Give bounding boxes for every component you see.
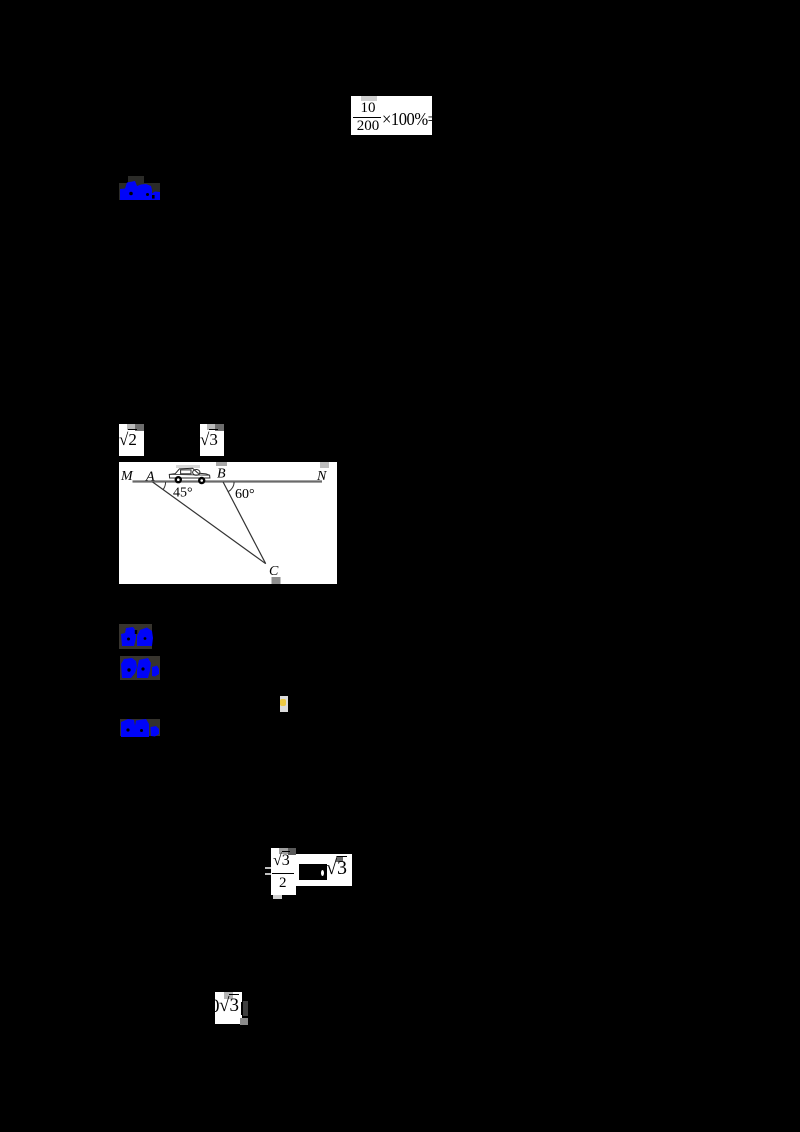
formula image: 10 sqrt(3): [215, 992, 242, 1024]
formula image: sqrt(2): [119, 424, 144, 456]
formula image: sqrt(3)/2 fraction: [271, 848, 296, 895]
wheel right: [198, 477, 205, 484]
black text blob: [299, 864, 327, 880]
artifact gray block above B: [216, 462, 227, 466]
road line MN: [133, 480, 323, 482]
formula image F1: 10/200 × 100% =: [351, 96, 432, 135]
artifact gray band top of F1: [361, 96, 377, 101]
svg-text:45°: 45°: [173, 486, 193, 501]
wheel left: [175, 476, 182, 483]
artifact gray block above N: [320, 462, 329, 468]
blue label 分析： with gray highlight: [120, 656, 160, 680]
artifact below fraction box: [273, 895, 282, 899]
tiny equals marks left of fraction: [265, 867, 271, 869]
svg-text:N: N: [316, 469, 327, 484]
artifact gray block: [336, 856, 343, 862]
line A to C: [153, 482, 266, 564]
small icon with yellow dot: [280, 696, 288, 712]
fraction bar: [353, 117, 381, 118]
artifact gray square bottom-right of box: [240, 1018, 248, 1025]
blue label 解答： with gray highlight: [120, 719, 160, 736]
angle arc at A: [163, 482, 166, 490]
artifact gray block below C: [272, 577, 281, 584]
formula image: sqrt(3): [200, 424, 224, 456]
line B to C: [223, 482, 266, 564]
car icon: [169, 468, 210, 478]
angle arc at B: [228, 482, 234, 492]
faint glyph right of box: [243, 1001, 249, 1016]
formula image: ...=sqrt(3) strip: [296, 854, 352, 886]
answer blue text 5%。 with gray highlight artifacts: [128, 176, 144, 184]
blue label 考点 with gray highlight: [119, 624, 152, 649]
svg-text:60°: 60°: [235, 487, 255, 502]
artifact gray strip above car: [176, 465, 200, 468]
diagram image: road MN with car, triangle to C: [119, 462, 337, 584]
blue blob 5%: [120, 181, 160, 200]
svg-text:C: C: [269, 564, 279, 579]
svg-text:B: B: [217, 467, 226, 482]
svg-text:M: M: [120, 469, 134, 484]
